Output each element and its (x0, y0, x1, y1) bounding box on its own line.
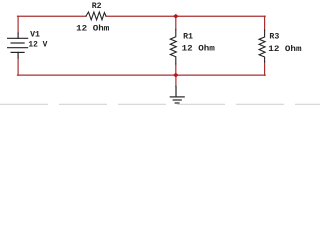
wire right vertical top (264, 16, 266, 30)
page boundary dashed line (0, 103, 320, 105)
wire right vertical bottom (264, 62, 266, 75)
wire bottom-left vertical (17, 58, 19, 75)
wire R1 branch bottom (175, 64, 177, 75)
resistor R1 symbol (170, 30, 176, 65)
ground symbol (170, 86, 184, 103)
svg-text:R2: R2 (92, 2, 102, 11)
wire R1 branch top (175, 16, 177, 29)
svg-text:V1: V1 (30, 31, 40, 40)
svg-text:R1: R1 (183, 33, 193, 42)
resistor R3 symbol (259, 30, 265, 62)
svg-text:12 Ohm: 12 Ohm (182, 44, 215, 54)
svg-text:12 Ohm: 12 Ohm (76, 23, 109, 33)
svg-text:R3: R3 (269, 33, 279, 42)
junction node bottom (R1/ground/bottom wire) (173, 73, 179, 78)
resistor R2 symbol (86, 12, 106, 20)
svg-text:12 Ohm: 12 Ohm (268, 44, 301, 54)
wire top-left vertical (17, 16, 19, 33)
wire bottom segment (18, 74, 266, 76)
svg-text:12 V: 12 V (28, 41, 47, 50)
wire top left segment (18, 15, 87, 17)
wire top right segment (106, 15, 265, 17)
battery V1 symbol (8, 33, 28, 58)
junction node top (R1/top wire) (173, 14, 179, 19)
wire ground stub (175, 75, 177, 86)
